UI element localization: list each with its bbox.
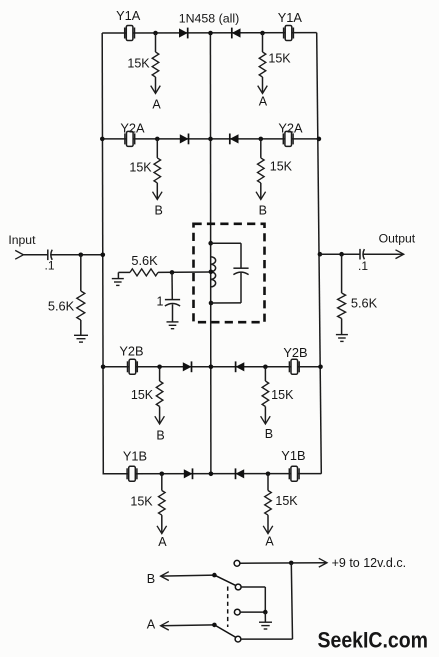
diode CR right row Y2B (1N458): [236, 361, 245, 372]
wire line A: [161, 624, 215, 627]
crystal Y2A (left): [125, 131, 135, 146]
diode CR left row Y1A (1N458): [179, 28, 188, 39]
svg-text:Y2B: Y2B: [119, 344, 143, 359]
wire left 15K to arrow Y2A: [156, 183, 158, 198]
node junction center bus Y1A: [208, 31, 213, 36]
wire row Y1B: [103, 473, 322, 475]
crystal Y2B (left): [128, 359, 138, 374]
svg-text:1N458 (all): 1N458 (all): [179, 11, 240, 25]
resistor R left 15K row Y1A 15K: [152, 52, 159, 77]
resistor R tap 5.6K 5.6K: [130, 269, 158, 276]
ground C3: [167, 322, 179, 329]
svg-text:15K: 15K: [127, 56, 150, 70]
inductor L1 (tapped coil): [211, 257, 216, 287]
resistor R right 15K row Y1B 15K: [265, 491, 272, 516]
node coil tap: [209, 270, 214, 275]
wire C2 to output terminal: [363, 253, 404, 255]
wire ground stem: [264, 612, 266, 622]
svg-text:Input: Input: [8, 233, 36, 247]
arrowhead to net B: [161, 572, 169, 581]
arrowhead to bias line A (right Y1B): [263, 526, 273, 534]
wire drop to left 15K Y1B: [161, 474, 163, 491]
diode CR right row Y2A (1N458): [230, 134, 239, 145]
arrowhead to bias line B (left Y2A): [153, 192, 163, 200]
wire riser to mid throw: [264, 587, 266, 612]
capacitor C2 .1: [360, 249, 364, 260]
node junction left Y1A: [153, 31, 158, 36]
node pole B: [212, 573, 217, 578]
resistor R input 5.6K 5.6K: [77, 291, 85, 320]
crystal Y1A (right): [284, 26, 294, 41]
wire right 15K to arrow Y2A: [260, 183, 262, 198]
wire down to C4: [240, 243, 242, 268]
diode CR right row Y1B (1N458): [236, 468, 245, 479]
wire line B: [161, 575, 215, 576]
svg-text:A: A: [158, 535, 167, 549]
capacitor C4 tank: [233, 268, 248, 274]
svg-text:.1: .1: [44, 258, 54, 272]
wire left 15K to arrow Y2B: [159, 407, 161, 423]
svg-text:15K: 15K: [275, 494, 298, 508]
resistor R right 15K row Y2A 15K: [258, 158, 265, 183]
switch S1 throw contact bottom: [235, 636, 241, 642]
arrowhead to bias line A (left Y1B): [157, 526, 167, 534]
diode CR left row Y2A (1N458): [180, 134, 189, 145]
wire C4 to tank bottom: [211, 302, 241, 304]
crystal Y2B (right): [289, 359, 299, 374]
wire bottom throw to riser: [241, 638, 293, 640]
node left bus / row Y2B: [101, 365, 106, 370]
resistor R right 15K row Y2B 15K: [262, 381, 269, 407]
wire drop to left 15K Y2A: [156, 139, 158, 158]
wire drop to C3: [171, 272, 173, 299]
node right bus mid node: [318, 252, 323, 257]
diode CR left row Y2B (1N458): [183, 361, 192, 372]
wire riser to +V junction: [291, 563, 292, 639]
diode CR right row Y1A (1N458): [232, 28, 241, 39]
wire left 15K to arrow Y1B: [161, 515, 163, 532]
svg-text:A: A: [147, 618, 156, 632]
switch S1 throw contact middle: [234, 609, 240, 615]
wire bus to C2: [320, 253, 360, 255]
wire drop to right 15K Y2B: [264, 367, 266, 381]
resistor R left 15K row Y1B 15K: [159, 491, 166, 516]
node tank bottom: [209, 301, 214, 306]
node pole A: [212, 623, 217, 628]
svg-text:Y1A: Y1A: [116, 8, 141, 23]
svg-text:1: 1: [157, 295, 164, 309]
svg-text:15K: 15K: [270, 160, 293, 174]
wire left 15K to arrow Y1A: [155, 77, 157, 92]
wire tank top to C4: [211, 242, 241, 244]
svg-text:A: A: [265, 534, 274, 548]
wire mid throw to ground node: [240, 611, 265, 613]
arrowhead +V terminal: [319, 558, 327, 567]
arrowhead to bias line A (left Y1A): [151, 86, 161, 94]
node input shunt node: [79, 253, 84, 258]
node left bus / row Y2A: [100, 137, 105, 142]
ground input shunt: [74, 335, 88, 342]
svg-text:Y1A: Y1A: [278, 10, 303, 25]
svg-text:B: B: [156, 428, 164, 442]
node junction left Y2A: [155, 137, 160, 142]
node switch ground node: [263, 610, 268, 615]
arrowhead output terminal: [396, 250, 404, 259]
wire top throw to +V: [240, 562, 327, 565]
capacitor C3 1: [165, 300, 180, 306]
wire C3 to ground: [172, 304, 174, 321]
wire C1 to left bus: [51, 254, 103, 256]
svg-text:15K: 15K: [129, 161, 152, 175]
wire R output to ground: [341, 319, 343, 335]
svg-text:B: B: [259, 203, 267, 217]
arrowhead input terminal: [15, 250, 23, 259]
capacitor C1 .1: [48, 250, 52, 261]
wire left vertical bus: [102, 33, 103, 474]
wire right 15K to arrow Y2B: [264, 407, 266, 423]
wire ground stem tap bias: [117, 272, 119, 278]
node junction center bus Y2B: [209, 365, 214, 370]
node junction left Y2B: [157, 365, 162, 370]
wire row Y2B: [103, 366, 321, 368]
svg-text:B: B: [265, 427, 273, 441]
svg-text:B: B: [155, 203, 163, 217]
wire right 15K to arrow Y1A: [262, 77, 264, 92]
node output shunt node: [339, 252, 344, 257]
svg-text:Y2B: Y2B: [283, 345, 307, 360]
node tank top: [208, 241, 213, 246]
wire center vertical bus: [209, 33, 212, 474]
arrowhead to bias line B (right Y2B): [261, 416, 271, 424]
svg-text:5.6K: 5.6K: [351, 296, 378, 311]
enclosure dashed box (tuned transformer): [194, 224, 265, 322]
resistor R right 15K row Y1A 15K: [259, 52, 266, 77]
wire right 15K to arrow Y1B: [267, 515, 269, 532]
crystal Y2A (right): [283, 131, 293, 146]
node junction right Y1A: [260, 31, 265, 36]
svg-text:A: A: [259, 94, 268, 108]
arrowhead to bias line B (right Y2A): [256, 192, 266, 200]
wire drop to R output 5.6K: [341, 254, 343, 293]
wire drop to right 15K Y1B: [267, 474, 269, 491]
wire R tap to coil tap: [158, 271, 211, 273]
node junction right Y1B: [266, 472, 271, 477]
resistor R left 15K row Y2A 15K: [154, 158, 161, 183]
wire throw B to riser: [241, 586, 265, 588]
wire drop to right 15K Y1A: [262, 33, 264, 52]
switch S1 gang (mechanical link): [227, 587, 229, 628]
wire drop to left 15K Y2B: [159, 367, 161, 381]
svg-text:5.6K: 5.6K: [48, 299, 75, 314]
svg-text:.1: .1: [358, 259, 368, 273]
svg-text:A: A: [152, 97, 161, 111]
diode CR left row Y1B (1N458): [184, 468, 193, 479]
node junction left Y1B: [160, 472, 165, 477]
wire drop to left 15K Y1A: [155, 33, 157, 52]
arrowhead to bias line B (left Y2B): [155, 416, 165, 424]
wire drop to R input 5.6K: [80, 255, 82, 291]
svg-text:SeekIC.com: SeekIC.com: [318, 627, 429, 652]
svg-text:5.6K: 5.6K: [131, 253, 158, 268]
wire C4 down: [240, 273, 242, 303]
resistor R output 5.6K 5.6K: [338, 293, 346, 319]
svg-text:B: B: [147, 572, 155, 586]
node junction right Y2A: [259, 137, 264, 142]
wire drop to right 15K Y2A: [260, 139, 262, 158]
svg-text:Y2A: Y2A: [278, 120, 303, 135]
node right bus / row Y2B: [318, 365, 323, 370]
node left bus mid node: [101, 253, 106, 258]
wire row Y2A: [102, 138, 319, 140]
ground tap bias: [112, 279, 124, 286]
svg-text:Y1B: Y1B: [281, 448, 305, 463]
svg-text:Output: Output: [379, 231, 416, 245]
node tap node: [170, 270, 175, 275]
svg-text:+9 to 12v.d.c.: +9 to 12v.d.c.: [332, 556, 406, 570]
svg-text:Y2A: Y2A: [120, 120, 145, 135]
node junction center bus Y1B: [209, 472, 214, 477]
switch S1 arm (pole B): [214, 575, 236, 586]
node +V junction: [289, 561, 294, 566]
svg-text:Y1B: Y1B: [123, 449, 147, 464]
switch S1 throw contact B: [235, 584, 241, 590]
switch S1 arm (pole A): [214, 625, 236, 638]
wire ground to R tap: [118, 271, 130, 273]
wire R input to ground: [80, 320, 82, 335]
svg-text:15K: 15K: [131, 388, 154, 402]
node junction right Y2B: [263, 365, 268, 370]
svg-text:15K: 15K: [130, 495, 153, 509]
resistor R left 15K row Y2B 15K: [156, 381, 163, 407]
switch S1 throw contact top: [234, 560, 240, 566]
arrowhead to net A: [161, 621, 169, 630]
svg-text:15K: 15K: [268, 52, 291, 66]
node right bus / row Y2A: [317, 137, 322, 142]
crystal Y1A (left): [125, 26, 135, 41]
crystal Y1B (right): [289, 466, 299, 481]
svg-text:15K: 15K: [271, 388, 294, 402]
ground output shunt: [336, 335, 348, 342]
wire row Y1A: [102, 32, 317, 34]
arrowhead to bias line A (right Y1A): [258, 86, 268, 94]
wire right vertical bus: [317, 33, 322, 474]
crystal Y1B (left): [127, 466, 137, 481]
ground switch: [259, 622, 272, 629]
node junction center bus Y2A: [208, 137, 213, 142]
wire input to C1: [23, 254, 47, 256]
